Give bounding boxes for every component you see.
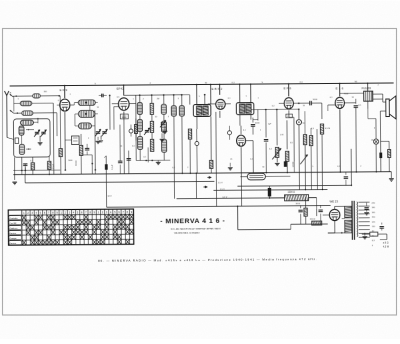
wire: hum leads <box>240 176 247 178</box>
svg-text:Fonica: Fonica <box>9 233 16 235</box>
wire: V3 leads <box>219 84 221 94</box>
tube V7 rectifier <box>329 209 339 220</box>
wire: left drops <box>32 170 34 175</box>
wire: osc links <box>135 95 138 160</box>
svg-text:0,1: 0,1 <box>330 97 333 99</box>
svg-text:4,5 W: 4,5 W <box>383 247 390 249</box>
component: grid block <box>72 136 80 145</box>
wire: det rails <box>258 108 299 110</box>
ground: psu1 <box>364 212 369 214</box>
svg-text:50: 50 <box>303 105 305 107</box>
svg-text:2: 2 <box>70 94 71 96</box>
coil L6 tuning <box>19 144 24 154</box>
svg-text:0,5: 0,5 <box>287 116 290 118</box>
wire: R9 down <box>286 161 288 172</box>
capacitor C6 gang <box>96 131 100 133</box>
svg-text:SOC. AN. RADIOFONICA « MINERV: SOC. AN. RADIOFONICA « MINERVA » APPAR. … <box>171 227 222 230</box>
resistor R7 <box>150 139 153 151</box>
wire: lamp leads <box>375 119 377 139</box>
capacitor C22 electrolytic <box>104 156 106 158</box>
coil L10 <box>137 119 142 131</box>
capacitor C12 electrolytic <box>296 120 301 125</box>
capacitor C21 <box>380 226 384 228</box>
svg-text:10000: 10000 <box>293 161 295 167</box>
wire: x351 drop <box>350 149 352 185</box>
capacitor C20 <box>364 207 368 209</box>
wire: T1 leads <box>189 95 191 105</box>
wire: ant row3 <box>13 112 21 114</box>
terminal: shield terminal <box>15 138 19 144</box>
coil L11 <box>138 136 143 149</box>
shield: input shield box <box>13 119 50 158</box>
wire: underV1 links <box>65 139 71 141</box>
coil L19 <box>179 106 184 117</box>
capacitor C14 <box>354 105 358 107</box>
wire: row4 links <box>33 121 37 123</box>
svg-text:3: 3 <box>178 98 179 100</box>
wire: L7/L8 links <box>70 104 74 106</box>
resistor R1 <box>31 163 34 170</box>
wire: V4 leads <box>288 84 290 96</box>
ground: osc2 <box>164 126 166 130</box>
wire: C12 down <box>298 125 301 189</box>
component: EF6 socket label <box>286 114 293 118</box>
resistor R10 <box>303 135 306 145</box>
capacitor C19 <box>318 209 322 211</box>
svg-text:1 M: 1 M <box>280 134 284 136</box>
svg-text:5: 5 <box>312 166 313 168</box>
capacitor C9 padder <box>145 129 149 131</box>
svg-text:FU1233: FU1233 <box>362 86 372 90</box>
resistor R14 <box>312 221 322 225</box>
capacitor C18 <box>298 209 302 211</box>
svg-text:E B F 2: E B F 2 <box>212 87 223 91</box>
ground: psu2 <box>362 236 367 238</box>
wire: row2 right <box>32 102 53 104</box>
svg-text:5: 5 <box>199 96 200 98</box>
wire: bus drop x237 <box>237 206 239 229</box>
wire: R2 drops <box>48 156 50 161</box>
svg-text:2: 2 <box>88 138 89 140</box>
wire: rect leads <box>334 206 336 209</box>
resistor R4 <box>79 145 82 155</box>
svg-text:2: 2 <box>360 166 361 168</box>
wire: C11 down <box>265 142 267 172</box>
capacitor C2 gang b <box>41 131 45 133</box>
svg-text:0,1: 0,1 <box>58 100 61 102</box>
capacitor C13 <box>309 101 311 105</box>
coil L3 <box>22 111 33 116</box>
resistor R6 <box>150 121 153 132</box>
arrow: heater a <box>207 176 211 178</box>
wire: ant row1 <box>13 95 32 97</box>
wire: bus D <box>213 189 327 192</box>
resistor R11 <box>320 124 323 134</box>
wire: c7 drop <box>119 165 121 174</box>
capacitor C17 electrolytic <box>268 188 271 197</box>
capacitor C8 <box>127 158 131 160</box>
tube V4 EF6 <box>284 98 293 109</box>
node: top bus junctions <box>64 85 66 87</box>
svg-text:- MINERVA 4 1 6 -: - MINERVA 4 1 6 - <box>160 218 225 226</box>
IF transformer T1 <box>193 104 211 116</box>
coil L13 <box>161 121 166 132</box>
ground: osc <box>156 161 161 163</box>
resistor R13 <box>304 208 307 216</box>
wire: R3 leads <box>59 100 61 148</box>
svg-text:50000: 50000 <box>76 160 78 166</box>
wire: bus A end ground <box>390 172 392 178</box>
lamp LP1 <box>373 139 378 144</box>
svg-text:50: 50 <box>352 97 354 99</box>
svg-text:32 V: 32 V <box>108 196 113 198</box>
resistor R9 <box>285 151 288 161</box>
resistor R8 <box>188 129 191 139</box>
svg-text:E F 6: E F 6 <box>284 86 292 90</box>
switch S1a <box>10 94 14 97</box>
wire: antenna rail <box>6 96 8 138</box>
coil L1 <box>33 94 41 98</box>
transformer T4 primary <box>345 206 352 218</box>
wire: osc top link <box>124 94 183 96</box>
wire: x196 drop <box>195 173 197 198</box>
svg-text:6,3: 6,3 <box>172 167 175 169</box>
wire: psu links <box>305 199 307 208</box>
wire: below shield <box>21 157 23 170</box>
coil L14 <box>162 139 167 152</box>
wire: row1 to V1 <box>40 95 59 97</box>
ground: mid2 <box>228 167 233 169</box>
svg-text:0,1: 0,1 <box>30 160 33 162</box>
wire: gang feed <box>94 110 96 131</box>
wire: V2 leads <box>123 85 125 95</box>
potentiometer P1 volume <box>275 147 278 157</box>
loudspeaker LS1 <box>386 99 390 117</box>
arrow: heater b <box>203 186 207 188</box>
wire: branch to R12 <box>381 140 389 142</box>
coil L2 <box>20 101 32 106</box>
wire: R16 leads <box>310 128 312 135</box>
svg-text:0,1μF: 0,1μF <box>112 164 114 170</box>
svg-text:0,1: 0,1 <box>250 159 253 161</box>
capacitor C24 trimmer <box>161 122 165 124</box>
tube V3 EBF2 <box>216 99 225 109</box>
capacitor C15 tone <box>344 176 348 178</box>
svg-text:0,1: 0,1 <box>228 98 231 100</box>
antenna ANT <box>4 91 8 96</box>
coil L8 <box>78 110 95 117</box>
node: L7 tap <box>85 102 87 104</box>
svg-text:0,1: 0,1 <box>337 166 340 168</box>
wire: shield internals <box>21 135 23 144</box>
wire: bus F <box>107 205 331 207</box>
capacitor C16 electrolytic <box>379 153 382 159</box>
svg-text:5: 5 <box>246 96 247 98</box>
tube V2 ECH42 <box>118 98 129 110</box>
fuse F1 <box>370 232 378 236</box>
svg-text:2 m EK: 2 m EK <box>9 223 17 225</box>
wire: verticals to V1 zone <box>52 103 55 174</box>
svg-text:Campo: Campo <box>9 238 17 240</box>
resistor R12 <box>388 150 391 158</box>
table: valve connection chart <box>8 209 134 245</box>
wire: choke leads <box>271 197 285 199</box>
svg-text:6: 6 <box>374 128 375 130</box>
potentiometer arrow tone <box>300 155 308 165</box>
coil L15 hum <box>247 173 265 180</box>
svg-text:0,2: 0,2 <box>272 105 275 107</box>
tube V5 EL6 <box>335 97 344 108</box>
svg-text:1: 1 <box>210 167 211 169</box>
capacitor C1 gang a <box>35 131 39 133</box>
diode D1 detector <box>195 142 199 146</box>
capacitor C25 electrolytic <box>284 161 287 167</box>
wire: bus E <box>177 197 285 200</box>
wire: x106 long <box>105 156 107 207</box>
svg-text:0,5: 0,5 <box>117 97 120 99</box>
ground: left rail <box>12 181 17 183</box>
resistor R5 <box>150 103 153 114</box>
coil L17 <box>78 123 91 129</box>
wire: R11 down <box>321 134 323 189</box>
wire: bus B <box>25 181 214 182</box>
tube V6 <box>237 135 246 146</box>
svg-text:100 Ω: 100 Ω <box>310 219 316 221</box>
svg-text:0,5: 0,5 <box>132 146 135 148</box>
svg-text:300: 300 <box>44 91 47 93</box>
svg-text:WE 23: WE 23 <box>330 199 339 203</box>
resistor R3 cathode <box>59 149 62 157</box>
transformer T4 mains core <box>351 201 353 240</box>
wire: R18 down <box>210 168 212 173</box>
coil L7 <box>78 100 95 106</box>
wire: V5 leads <box>339 83 341 96</box>
node: L8 tap <box>85 113 87 115</box>
resistor R2 <box>48 161 51 169</box>
svg-text:1200 Ω: 1200 Ω <box>287 192 295 194</box>
wire: C10 area <box>252 118 254 123</box>
ground: gang2 <box>100 136 102 140</box>
wire: coupler <box>299 102 310 104</box>
wire: speaker leads <box>382 94 384 102</box>
svg-text:50: 50 <box>120 146 122 148</box>
resistor R16 <box>309 136 312 146</box>
svg-text:1: 1 <box>133 99 134 101</box>
svg-text:2,5 V: 2,5 V <box>218 182 223 184</box>
svg-text:Fonica: Fonica <box>9 243 16 245</box>
ground: mid1 <box>160 138 165 140</box>
svg-text:25: 25 <box>230 159 232 161</box>
svg-text:Contatto: Contatto <box>9 217 18 220</box>
coil L5 tuning <box>19 126 24 135</box>
capacitor C11 <box>264 138 268 140</box>
wire: bus A <box>13 172 391 175</box>
svg-text:50: 50 <box>262 166 264 168</box>
wire: C17 <box>268 186 270 188</box>
svg-text:50: 50 <box>97 107 99 109</box>
wire: HT top bus <box>10 83 394 86</box>
svg-text:VIA GENOVA N. 10 MILAN: VIA GENOVA N. 10 MILANO <box>174 232 200 235</box>
capacitor C23 <box>101 94 103 98</box>
wire: C13 to grid <box>312 102 322 104</box>
svg-text:2: 2 <box>187 167 188 169</box>
wire: R8 lead <box>189 139 191 173</box>
transformer T3 output <box>364 91 373 101</box>
capacitor C26 osc grid <box>129 129 133 133</box>
wire: C14 down <box>355 108 358 172</box>
wire: V1 leads <box>64 86 66 98</box>
wire: V6 leads <box>240 126 242 134</box>
capacitor C4 <box>85 147 89 149</box>
wire: L18/L19 leads <box>173 95 175 106</box>
wire: bus C <box>237 184 351 187</box>
tube V1 EF9 <box>60 99 70 111</box>
ground: volume <box>276 157 278 162</box>
coil L18 <box>171 106 176 117</box>
coil L12 <box>161 104 166 114</box>
wire: C19 <box>320 205 322 208</box>
capacitor C10 <box>251 124 255 126</box>
ground: underV1 <box>96 140 101 142</box>
resistor R18 <box>210 160 213 168</box>
wire: T3 sec down <box>367 109 369 119</box>
component: V2 socket label <box>120 114 128 119</box>
svg-text:E F 9: E F 9 <box>60 88 68 92</box>
switch S1b <box>10 110 14 113</box>
coil L9 <box>137 102 142 114</box>
wire: V2 bottom drops <box>123 121 125 174</box>
IF transformer T2 <box>236 103 254 115</box>
svg-text:5000: 5000 <box>68 160 72 162</box>
svg-text:2M: 2M <box>157 98 160 100</box>
svg-text:2: 2 <box>378 85 379 87</box>
wire: R12 down <box>388 158 390 172</box>
resistor R17 osc grid <box>134 124 137 133</box>
wire: T4 left leads <box>342 218 345 220</box>
svg-text:EF42: EF42 <box>117 87 125 91</box>
svg-text:a 6 Ω: a 6 Ω <box>383 243 389 245</box>
transformer T4 secondary <box>356 202 359 205</box>
capacitor C3 <box>23 163 27 165</box>
svg-text:0,1: 0,1 <box>243 130 246 132</box>
ground: gang <box>39 136 41 142</box>
wire: R10 down <box>304 111 306 117</box>
wire: T3 leads <box>340 92 364 94</box>
choke L16 field coil <box>285 195 309 201</box>
wire: mains drop <box>386 234 388 239</box>
svg-text:1: 1 <box>258 98 259 100</box>
svg-text:Onde m.: Onde m. <box>9 228 18 230</box>
coil L4 <box>20 120 33 125</box>
svg-text:5: 5 <box>18 98 19 100</box>
wire: row3 right <box>33 112 57 114</box>
wire: T2 leads <box>239 84 241 102</box>
capacitor C7 <box>118 160 122 162</box>
wire: T4 taps <box>358 201 369 203</box>
svg-text:0,5 M: 0,5 M <box>325 128 330 130</box>
diode D2 <box>228 131 232 135</box>
